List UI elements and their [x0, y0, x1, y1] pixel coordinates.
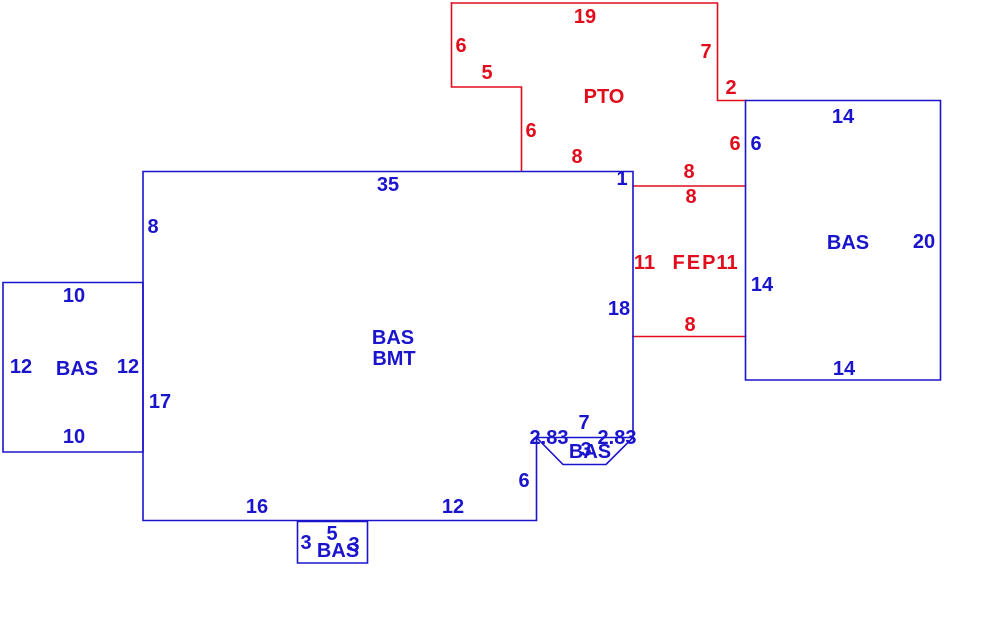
svg-text:8: 8 — [683, 161, 694, 183]
wire main BAS/BMT polygon — [143, 172, 633, 521]
wire PTO left step — [452, 3, 522, 171]
svg-text:BAS: BAS — [372, 327, 414, 349]
wire bay window trapezoid — [537, 438, 634, 465]
svg-text:20: 20 — [913, 231, 935, 253]
svg-text:3: 3 — [300, 532, 311, 554]
svg-text:12: 12 — [117, 356, 139, 378]
svg-text:5: 5 — [481, 62, 492, 84]
svg-text:11: 11 — [716, 252, 737, 274]
svg-text:1: 1 — [616, 168, 627, 190]
svg-text:14: 14 — [832, 106, 855, 128]
svg-text:10: 10 — [63, 285, 85, 307]
svg-text:8: 8 — [571, 146, 582, 168]
svg-text:12: 12 — [10, 356, 32, 378]
svg-text:FEP: FEP — [673, 252, 718, 274]
svg-text:BAS: BAS — [56, 358, 98, 380]
wire bottom small BAS rectangle — [298, 522, 368, 564]
svg-text:12: 12 — [442, 496, 464, 518]
svg-text:18: 18 — [608, 298, 630, 320]
svg-text:BAS: BAS — [317, 540, 359, 562]
svg-text:6: 6 — [750, 133, 761, 155]
wire FEP top edge — [633, 185, 746, 187]
wire left BAS rectangle — [3, 283, 143, 453]
svg-text:2: 2 — [725, 77, 736, 99]
svg-text:6: 6 — [729, 133, 740, 155]
svg-text:17: 17 — [149, 391, 171, 413]
svg-text:7: 7 — [700, 41, 711, 63]
svg-text:14: 14 — [833, 358, 856, 380]
svg-text:16: 16 — [246, 496, 268, 518]
svg-text:11: 11 — [634, 252, 655, 274]
wire PTO outline (red patio polygon) — [452, 3, 746, 101]
wire right BAS rectangle — [746, 101, 941, 381]
svg-text:19: 19 — [574, 6, 596, 28]
svg-text:6: 6 — [455, 35, 466, 57]
svg-text:BAS: BAS — [569, 441, 611, 463]
svg-text:PTO: PTO — [584, 86, 625, 108]
svg-text:6: 6 — [525, 120, 536, 142]
svg-text:8: 8 — [684, 314, 695, 336]
svg-text:7: 7 — [578, 412, 589, 434]
svg-text:14: 14 — [751, 274, 774, 296]
svg-text:BAS: BAS — [827, 232, 869, 254]
wire FEP bottom edge — [633, 336, 746, 338]
svg-text:8: 8 — [685, 186, 696, 208]
svg-text:BMT: BMT — [372, 348, 415, 370]
svg-text:8: 8 — [147, 216, 158, 238]
svg-text:35: 35 — [377, 174, 399, 196]
svg-text:6: 6 — [518, 470, 529, 492]
svg-text:10: 10 — [63, 426, 85, 448]
svg-text:2.83: 2.83 — [530, 427, 569, 449]
